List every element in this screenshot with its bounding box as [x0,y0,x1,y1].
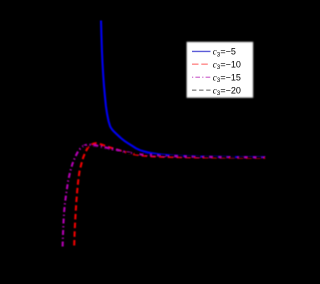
legend box [187,42,254,98]
legend line c3=-15 (magenta dash-dot) [192,76,211,78]
curve c3=-20 (black dashed, invisible on black background) [50,144,266,247]
curve c3=-15 (magenta dash-dot) [63,145,266,247]
legend line c3=-20 (gray dashed) [192,89,211,91]
curve c3=-5 (blue solid) [101,21,266,158]
curve c3=-10 (red dashed) [74,143,265,245]
legend line c3=-10 (red dashed) [192,63,211,65]
legend line c3=-5 (blue) [192,50,211,52]
